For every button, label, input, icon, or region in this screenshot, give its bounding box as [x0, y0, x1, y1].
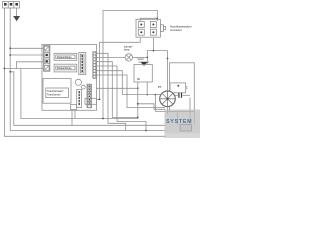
motor bottom wire [167, 107, 169, 114]
motor M1 [158, 85, 176, 107]
sensor label box vertical [77, 90, 82, 108]
valve box pin wires [137, 82, 139, 119]
capacitor box [170, 83, 189, 93]
ground arrow [13, 8, 20, 21]
right enclosure box [170, 63, 195, 112]
wire L1 vertical left [4, 8, 194, 136]
wire N vertical left [10, 8, 190, 131]
motor bottom bus [155, 110, 194, 112]
wire branch down around module [21, 69, 138, 119]
module left connector strip [44, 46, 50, 72]
wire branch to pin3 [17, 62, 44, 69]
svg-text:Relais/Relay: Relais/Relay [57, 66, 72, 70]
relay K2 [54, 64, 77, 72]
svg-text:Transformer: Transformer [47, 93, 61, 96]
label connector [170, 25, 192, 33]
motor feed wire [122, 94, 160, 96]
module box [42, 45, 97, 111]
svg-text:Ventil: Ventil [138, 58, 144, 61]
thermostat circles [75, 79, 81, 85]
connector plug X2 [136, 19, 165, 37]
junction [9, 47, 11, 49]
wire lamp right [133, 56, 148, 58]
svg-text:Anschlussstecker/: Anschlussstecker/ [170, 25, 192, 29]
wire lamp left [96, 56, 125, 58]
svg-text:connector: connector [170, 28, 182, 32]
control label box vertical [79, 53, 86, 75]
wire to pin1 [10, 47, 43, 49]
watermark logo [165, 110, 201, 139]
junction dots on D bus [137, 117, 139, 119]
valve Y1 [138, 58, 150, 66]
wire from connector BR pin [147, 38, 153, 65]
wire jog branch [10, 72, 177, 126]
wire from connector BL pin [100, 38, 141, 99]
valve box [134, 65, 152, 83]
motor return wire [154, 95, 156, 112]
module right connector strip upper [93, 52, 96, 79]
svg-text:lamp: lamp [124, 48, 130, 52]
capacitor C1 [175, 93, 190, 98]
transformer T1 [43, 79, 71, 104]
lamp H1 [124, 44, 133, 61]
relay K1 [54, 53, 77, 60]
svg-text:SYSTEM: SYSTEM [166, 119, 192, 125]
wire link above connector [140, 18, 157, 21]
wire to pin2 [10, 54, 43, 56]
module right connector strip lower [87, 84, 92, 108]
svg-text:Relais/Relay: Relais/Relay [57, 55, 72, 59]
wire BR to motor branch [153, 51, 167, 93]
svg-text:PT: PT [158, 85, 162, 89]
fan wire to lamp row [96, 87, 138, 89]
valve drain wire [138, 104, 165, 110]
terminal block X1 [3, 2, 20, 9]
module bottom connector [71, 105, 77, 126]
wire branch to pin4 [4, 68, 43, 70]
small box module lower right [85, 98, 97, 104]
fan wires from right strip [96, 62, 138, 118]
big loop wire top [103, 11, 157, 119]
stub into module small box [97, 98, 100, 100]
